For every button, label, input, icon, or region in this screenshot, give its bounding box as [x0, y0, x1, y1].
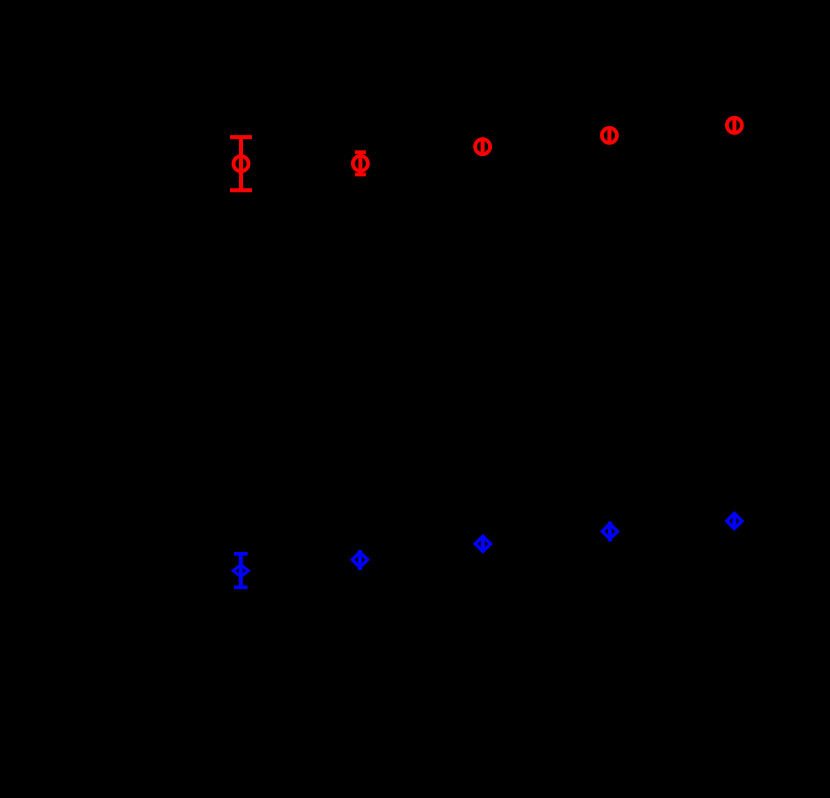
blue series point 1 error bar — [234, 554, 248, 588]
blue series point 4 diamond marker — [602, 524, 617, 539]
red series point 5 error bar — [732, 117, 736, 133]
blue series point 2 error bar — [358, 550, 362, 570]
blue series point 1 diamond marker (flattened) — [233, 565, 248, 577]
red series point 3 error bar — [481, 139, 485, 155]
red series point 4 circle marker — [602, 128, 617, 143]
blue series point 3 error bar — [481, 536, 485, 552]
blue series point 5 error bar — [732, 513, 736, 529]
red series point 4 error bar — [607, 127, 611, 143]
red series point 1 circle marker — [234, 156, 249, 171]
red series point 5 circle marker — [727, 118, 742, 133]
red series point 3 circle marker — [475, 139, 490, 154]
red series point 2 circle marker — [353, 156, 368, 171]
blue series point 5 diamond marker — [727, 513, 742, 528]
red series point 2 error bar — [355, 152, 366, 174]
blue series point 4 error bar — [608, 521, 612, 541]
blue series point 3 diamond marker — [475, 536, 490, 551]
blue series point 2 diamond marker — [352, 552, 367, 567]
red series point 1 error bar — [230, 137, 252, 190]
